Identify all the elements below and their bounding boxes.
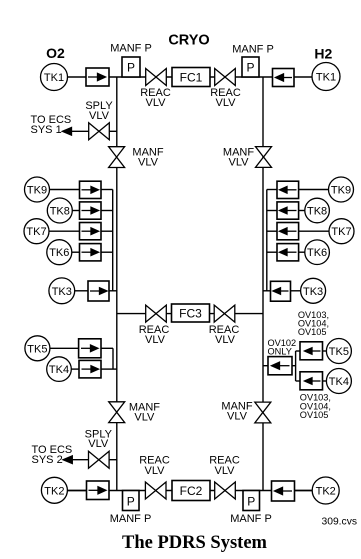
arrow in check valve TK7 left: [82, 230, 92, 232]
pressure sensor P box bottom right: [243, 491, 260, 511]
tank TK5 right: [326, 339, 351, 364]
svg-text:VLV: VLV: [138, 156, 159, 168]
arrow in check valve TK1 O2: [88, 76, 98, 78]
wire TK8 right feed: [299, 210, 305, 212]
wire left tank trunk: [112, 190, 114, 291]
valve REAC VLV bottom left: [145, 482, 166, 499]
check valve box TK3 left: [88, 281, 109, 301]
svg-text:CRYO: CRYO: [168, 33, 209, 49]
check valve box TK6 left: [80, 244, 102, 261]
svg-text:TK9: TK9: [331, 185, 351, 197]
svg-text:MANF P: MANF P: [232, 44, 274, 56]
arrow in check valve TK2 right: [281, 490, 292, 492]
svg-text:TK8: TK8: [50, 206, 70, 218]
svg-text:VLV: VLV: [216, 97, 237, 109]
check valve box TK4 right: [300, 372, 323, 390]
wire TK6 left stub: [101, 251, 113, 253]
tank TK8 right: [305, 198, 330, 223]
tank TK9 left: [25, 177, 50, 202]
valve MANF VLV bottom right: [255, 402, 271, 423]
wire right main vertical line: [262, 77, 264, 491]
check valve box TK9 right: [277, 181, 299, 198]
arrow in check valve TK8 left: [82, 210, 92, 212]
arrow in check valve TK1 H2: [282, 77, 292, 79]
check valve box TK6 right: [277, 244, 299, 261]
svg-text:VLV: VLV: [215, 334, 236, 346]
svg-text:MANF P: MANF P: [110, 43, 152, 55]
svg-text:VLV: VLV: [146, 97, 167, 109]
arrow in check valve TK5 right: [311, 350, 321, 352]
svg-text:MANF P: MANF P: [230, 513, 272, 525]
flow controller FC2 box: [172, 481, 210, 501]
svg-text:TK6: TK6: [49, 247, 69, 259]
wire TK6 left feed: [72, 251, 80, 253]
svg-text:TK7: TK7: [331, 226, 351, 238]
wire TK8 left feed: [72, 210, 80, 212]
wire right tank trunk: [266, 190, 268, 291]
wire TK7 left stub: [101, 230, 113, 232]
valve MANF VLV top right: [256, 147, 272, 168]
wire sply valve 1 stub: [109, 130, 117, 132]
svg-text:TK7: TK7: [26, 226, 46, 238]
check valve box TK1 H2: [273, 69, 295, 87]
wire TK3 left feed: [75, 290, 89, 292]
arrow in check valve TK4 left: [82, 368, 92, 370]
svg-text:VLV: VLV: [227, 410, 248, 422]
arrow in check valve TK4 right: [311, 380, 321, 382]
check valve box TK3 right: [271, 281, 291, 301]
svg-text:OV105: OV105: [298, 327, 327, 337]
valve MANF VLV bottom left: [109, 402, 125, 423]
valve MANF VLV top left: [109, 147, 125, 168]
wire TK7 right feed: [299, 230, 329, 232]
tank TK5 left: [25, 336, 50, 361]
svg-text:P: P: [127, 61, 135, 75]
tank TK1 H2: [312, 63, 340, 91]
wire TK3 right stub: [263, 290, 271, 292]
wire TK4 right feed: [323, 380, 327, 382]
arrow in check valve TK5 left: [81, 347, 91, 349]
arrow in check valve OV102: [279, 365, 290, 367]
tank TK2 right: [312, 477, 339, 504]
wire TK9 right feed: [299, 189, 329, 191]
svg-text:TK6: TK6: [307, 247, 327, 259]
svg-text:The PDRS System: The PDRS System: [122, 533, 268, 553]
svg-text:TK3: TK3: [303, 286, 323, 298]
flow controller FC3 box: [172, 304, 210, 322]
svg-text:TK9: TK9: [27, 185, 47, 197]
svg-text:SYS 1: SYS 1: [31, 124, 62, 136]
wire TK4 right stub: [296, 380, 300, 382]
svg-text:OV105: OV105: [300, 410, 329, 420]
wire TK9 left stub: [101, 189, 113, 191]
svg-text:TK3: TK3: [52, 286, 72, 298]
wire TK6 right stub: [267, 251, 277, 253]
valve SPLY VLV top: [89, 123, 110, 140]
arrowhead TO ECS SYS 2: [63, 456, 72, 464]
svg-text:ONLY: ONLY: [268, 347, 292, 357]
pressure sensor P box top left: [122, 57, 140, 77]
arrowhead TO ECS SYS 1: [62, 128, 71, 136]
svg-text:P: P: [127, 494, 135, 508]
arrow in check valve TK3 right: [279, 290, 289, 292]
wire left TK5-TK4 trunk: [112, 348, 114, 369]
wire TK5 left stub: [101, 347, 113, 349]
wire bottom header line: [68, 490, 313, 492]
arrow in check valve TK9 right: [287, 189, 297, 191]
wire to ECS sys 2 arrow line: [69, 459, 89, 461]
tank TK7 right: [329, 219, 354, 244]
wire TK8 left stub: [101, 210, 113, 212]
svg-text:FC3: FC3: [179, 306, 202, 320]
valve REAC VLV bottom right: [215, 482, 236, 499]
pressure sensor P box bottom left: [123, 491, 140, 511]
wire top O2-H2 header line: [68, 76, 313, 78]
check valve box TK9 left: [80, 181, 102, 198]
wire TK7 left feed: [49, 230, 80, 232]
wire TK6 right feed: [299, 251, 305, 253]
svg-text:VLV: VLV: [215, 465, 236, 477]
svg-text:O2: O2: [46, 45, 65, 61]
svg-text:VLV: VLV: [145, 465, 166, 477]
valve REAC VLV mid left: [146, 305, 167, 322]
wire TK5 right feed: [323, 350, 327, 352]
svg-text:TK1: TK1: [44, 72, 64, 84]
svg-text:TK5: TK5: [27, 343, 47, 355]
tank TK2 left: [41, 477, 67, 503]
check valve box TK2 right: [272, 481, 295, 501]
wire sply valve 2 stub: [109, 459, 117, 461]
arrow in check valve TK8 right: [287, 210, 297, 212]
svg-text:TK8: TK8: [307, 206, 327, 218]
svg-text:VLV: VLV: [134, 411, 155, 423]
check valve box TK4 left: [79, 360, 101, 378]
wire TK9 right stub: [267, 189, 277, 191]
svg-text:309.cvs: 309.cvs: [322, 517, 358, 528]
wire TK3 left stub: [109, 290, 117, 292]
wire TK8 right stub: [267, 210, 277, 212]
wire OV102 right stub: [292, 365, 296, 367]
tank TK6 right: [305, 240, 330, 265]
arrow in check valve TK2 left: [89, 489, 99, 491]
tank TK4 left: [47, 357, 72, 382]
wire TK2 left feed: [67, 490, 86, 492]
check valve box TK7 right: [277, 223, 299, 240]
svg-text:TK1: TK1: [316, 72, 336, 84]
tank TK3 left: [49, 278, 75, 304]
arrow in check valve TK6 left: [82, 251, 92, 253]
wire TK7 right stub: [267, 230, 277, 232]
wire to ECS sys 1 arrow line: [68, 130, 89, 132]
wire right TK5-TK4 trunk: [295, 351, 297, 381]
pressure sensor P box top right: [242, 57, 259, 77]
wire TK4 left feed: [71, 368, 79, 370]
svg-text:TK4: TK4: [329, 376, 349, 388]
svg-text:H2: H2: [314, 46, 332, 62]
svg-text:FC2: FC2: [180, 484, 203, 498]
tank TK6 left: [47, 240, 72, 265]
wire TK5 left feed: [50, 347, 79, 349]
check valve box TK2 left: [87, 481, 110, 500]
wire TK9 left feed: [50, 189, 80, 191]
wire TK4 left stub: [101, 368, 117, 370]
check valve box TK5 right: [300, 342, 323, 360]
check valve box OV102: [268, 357, 292, 375]
svg-text:SYS 2: SYS 2: [32, 454, 63, 466]
tank TK4 right: [326, 369, 351, 394]
check valve box TK8 left: [80, 202, 102, 219]
svg-text:MANF P: MANF P: [110, 513, 152, 525]
arrow in check valve TK9 left: [82, 189, 92, 191]
svg-text:TK2: TK2: [44, 485, 64, 497]
check valve box TK5 left: [79, 339, 101, 358]
wire OV102 left stub: [263, 365, 268, 367]
wire TK2 right feed: [295, 490, 313, 492]
tank TK9 right: [329, 177, 354, 202]
valve REAC VLV top left: [146, 69, 167, 86]
wire TK3 right feed: [291, 290, 301, 292]
svg-text:TK4: TK4: [49, 364, 69, 376]
svg-text:TK2: TK2: [316, 486, 336, 498]
tank TK8 left: [47, 198, 72, 223]
wire TK5 right stub: [296, 350, 300, 352]
flow controller FC1 box: [172, 68, 210, 87]
arrow in check valve TK3 left: [90, 290, 100, 292]
svg-text:TK5: TK5: [329, 346, 349, 358]
valve SPLY VLV bottom: [89, 451, 110, 468]
check valve box TK1 O2: [86, 68, 109, 86]
valve REAC VLV mid right: [214, 305, 235, 322]
svg-text:P: P: [246, 61, 254, 75]
svg-text:FC1: FC1: [180, 70, 203, 84]
svg-text:VLV: VLV: [88, 438, 109, 450]
wire FC3 crossover line: [117, 313, 263, 315]
svg-text:VLV: VLV: [89, 110, 110, 122]
tank TK7 left: [24, 219, 49, 244]
svg-text:VLV: VLV: [145, 334, 166, 346]
arrow in check valve TK7 right: [287, 230, 297, 232]
tank TK3 right: [301, 278, 326, 303]
check valve box TK8 right: [277, 202, 299, 219]
svg-text:VLV: VLV: [229, 156, 250, 168]
valve REAC VLV top right: [215, 69, 236, 86]
arrow in check valve TK6 right: [287, 251, 297, 253]
check valve box TK7 left: [80, 223, 102, 240]
svg-text:P: P: [247, 494, 255, 508]
wire left main vertical line: [116, 77, 118, 491]
tank TK1 O2: [41, 64, 68, 91]
